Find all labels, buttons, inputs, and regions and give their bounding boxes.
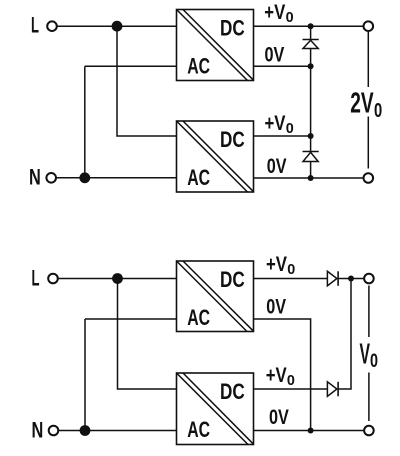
wire bus +V node to D1 cathode [310,26,312,39]
terminal output positive (bottom) [364,274,374,284]
wire L to U1 input [57,25,177,27]
svg-text:AC: AC [187,165,210,190]
terminal N (top) [46,173,56,183]
node U2 0V junction [308,175,314,181]
terminal N (bottom) [49,426,59,436]
converter U3 (AC/DC) [177,261,254,332]
wire D4 cathode up to output junction [338,279,351,390]
svg-text:V: V [360,339,371,371]
label +V0 (U1 output) [264,1,293,26]
wire positive terminal down to 2V0 label [367,32,369,87]
converter U4 (AC/DC) [177,373,254,445]
converter U2 (AC/DC) [177,121,254,192]
wire series link D1 anode to D2 cathode [310,49,312,152]
label 2V0 [350,88,382,122]
svg-text:0V: 0V [265,44,285,67]
svg-text:AC: AC [187,53,210,78]
svg-text:AC: AC [187,417,210,442]
svg-text:N: N [32,418,44,443]
label V0 [360,339,379,373]
node L junction (bottom) [112,273,123,284]
wire U1 lower input down to N node [84,66,86,178]
wire U3 +V output to D3 anode [254,278,328,280]
diode D2 (across U2 output, cathode up) [303,152,319,162]
svg-text:L: L [32,266,40,291]
svg-text:N: N [29,165,41,190]
wire 2V0 label down to negative terminal [367,117,369,169]
node U1 +V junction [308,23,314,29]
svg-text:DC: DC [220,127,245,152]
svg-text:DC: DC [220,267,245,292]
terminal output negative (top) [364,173,374,183]
wire U2 0V output to negative terminal [254,177,364,179]
converter U1 (AC/DC) [177,10,254,81]
svg-text:0: 0 [287,372,295,389]
wire D3 cathode to positive terminal [338,278,364,280]
node U2 +V junction [308,133,314,139]
wire L junction down to U2 input [117,26,177,136]
svg-text:0: 0 [286,9,294,26]
wire N to U2 lower input [56,177,177,179]
node N junction (bottom) [80,425,91,436]
label +V0 (U2 output) [265,112,294,137]
wire U1 0V output to bus [254,65,311,67]
svg-text:AC: AC [187,305,210,330]
svg-text:0V: 0V [267,155,287,178]
terminal output negative (bottom) [364,426,374,436]
node D3/D4 output junction [348,276,354,282]
node L junction (top) [112,21,123,32]
svg-text:0V: 0V [269,406,289,429]
terminal L (top) [47,21,57,31]
svg-text:+V: +V [264,1,285,24]
diode D3 (U3 +V, pointing right) [327,271,338,286]
svg-text:L: L [31,13,39,38]
svg-text:2V: 2V [350,88,374,120]
label +V0 (U3 output) [266,253,295,278]
label +V0 (U4 output) [266,364,295,389]
wire U2 +V output to bus [254,135,311,137]
diode D4 (U4 +V, pointing right) [327,382,338,397]
svg-text:+V: +V [265,112,286,135]
svg-text:+V: +V [266,364,287,387]
node N junction (top) [79,172,90,183]
wire U3 0V output down to 0V bus [254,319,311,431]
wire U4 0V output to negative terminal [254,430,365,432]
terminal output positive (top) [364,21,374,31]
svg-text:0: 0 [286,120,294,137]
svg-text:0: 0 [287,261,295,278]
wire L to U3 input [58,278,177,280]
wire positive terminal down to V0 label [368,286,370,338]
svg-text:0: 0 [370,351,378,372]
wire N to U4 lower input [58,430,176,432]
node U1 0V junction [308,63,314,69]
node 0V bus junction [308,428,314,434]
svg-text:0V: 0V [266,296,286,319]
wire U1 +V output to positive terminal [254,25,364,27]
wire U1 lower AC input [85,65,177,67]
wire U3 lower AC input [85,318,177,320]
svg-text:DC: DC [220,379,245,404]
svg-text:0: 0 [374,100,382,122]
svg-text:+V: +V [266,253,287,276]
diode D1 (across U1 output, cathode up) [303,40,319,49]
wire U3 lower input down to N node [84,319,86,431]
wire V0 label down to negative terminal [368,373,370,422]
wire U4 +V output to D4 anode [254,388,328,390]
wire D2 anode to U2 0V node [310,162,312,179]
terminal L (bottom) [48,274,58,284]
svg-text:DC: DC [220,16,245,41]
wire L junction down to U4 input [118,279,177,390]
